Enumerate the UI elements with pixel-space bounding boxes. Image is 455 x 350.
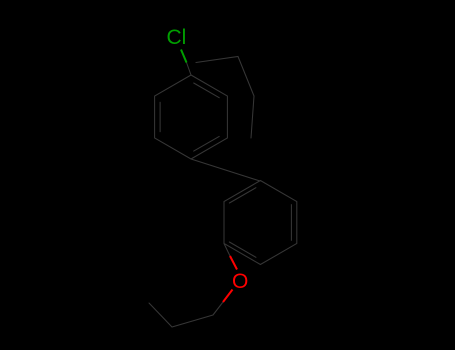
svg-text:O: O xyxy=(232,270,248,293)
svg-text:Cl: Cl xyxy=(167,26,187,49)
